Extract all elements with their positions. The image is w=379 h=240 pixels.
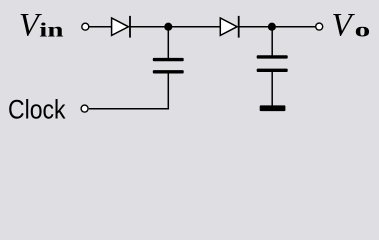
wire C1 bottom to clock rail (89, 73, 168, 109)
terminal Vo (316, 23, 323, 30)
svg-text:Clock: Clock (8, 94, 66, 124)
svg-text:in: in (39, 21, 63, 42)
node B junction dot (268, 23, 276, 31)
node A junction dot (164, 23, 172, 31)
terminal Vin (82, 23, 89, 30)
diode D2 (220, 16, 238, 38)
wire D2 cathode to node B (239, 26, 272, 28)
node Vin label (19, 7, 64, 43)
capacitor C2 (257, 55, 288, 72)
svg-text:o: o (355, 21, 371, 42)
diode D1 (112, 16, 130, 38)
node Vo label (332, 8, 371, 44)
wire node B down to C2 (271, 27, 273, 56)
ground (260, 105, 286, 111)
wire node A to D2 anode (168, 26, 220, 28)
wire node B to Vo terminal (272, 26, 316, 28)
terminal Clock (81, 105, 88, 112)
capacitor C1 (153, 58, 184, 74)
wire C2 bottom to ground (271, 72, 273, 106)
wire D1 cathode to node A (130, 26, 168, 28)
wire node A down to C1 (167, 27, 169, 59)
wire Vin terminal to D1 anode (89, 26, 112, 28)
